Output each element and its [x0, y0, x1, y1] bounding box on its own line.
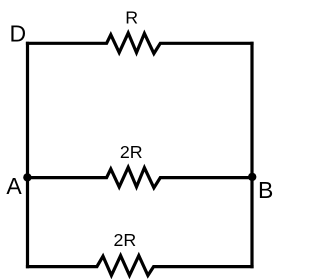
- svg-text:R: R: [125, 8, 138, 28]
- svg-text:2R: 2R: [120, 142, 143, 162]
- svg-text:A: A: [6, 173, 22, 199]
- svg-text:D: D: [10, 21, 27, 47]
- svg-text:2R: 2R: [114, 230, 137, 250]
- svg-text:B: B: [258, 177, 273, 203]
